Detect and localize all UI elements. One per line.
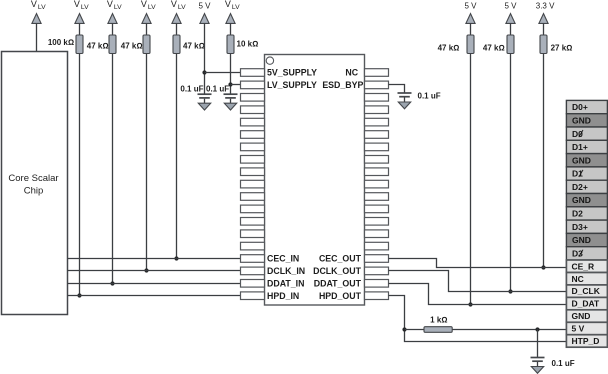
wire V_LV1 to chip	[36, 23, 38, 51]
svg-text:LV: LV	[148, 4, 156, 11]
resistor R4 47 k&#8486;	[173, 35, 180, 54]
wire R7 to D_CLK net	[510, 54, 512, 292]
power arrow V_LV 6	[226, 14, 235, 24]
svg-text:D_DAT: D_DAT	[572, 299, 601, 309]
svg-text:Core Scalar: Core Scalar	[8, 173, 58, 184]
power V_LV rail 2 with resistor R1	[74, 0, 89, 11]
junction HPD_IN net	[77, 293, 81, 297]
wire CEC_OUT to CE_R	[389, 259, 567, 268]
svg-text:V: V	[74, 0, 80, 9]
resistor R2 47 k&#8486;	[109, 35, 116, 54]
resistor R9 1 kOhm (horizontal)	[424, 327, 452, 333]
svg-text:D0: D0	[572, 129, 583, 139]
svg-text:5 V: 5 V	[464, 1, 477, 10]
power arrow V_LV 3	[108, 14, 117, 24]
junction D_CLK net	[508, 289, 512, 293]
power V_LV rail 3 with resistor R2	[107, 0, 122, 11]
svg-text:ESD_BYP: ESD_BYP	[322, 80, 363, 90]
svg-text:GND: GND	[572, 195, 591, 205]
power V_LV rail 4 with resistor R3	[141, 0, 156, 11]
svg-text:DCLK_IN: DCLK_IN	[267, 266, 305, 276]
ground	[398, 102, 410, 109]
capacitor C4 0.1 uF	[531, 358, 545, 367]
svg-text:LV_SUPPLY: LV_SUPPLY	[267, 80, 317, 90]
wire	[146, 23, 148, 35]
power V_LV rail 1 (to Core Scalar Chip)	[31, 0, 46, 11]
junction CE_R net	[541, 265, 545, 269]
svg-text:47 kΩ: 47 kΩ	[183, 41, 205, 50]
resistor R7 47 k&#8486;	[507, 35, 514, 54]
svg-text:Chip: Chip	[24, 186, 44, 197]
junction D_DAT net	[468, 302, 472, 306]
U1 left pin row	[241, 69, 265, 300]
wire	[176, 23, 178, 35]
power arrow 5 V A	[466, 14, 475, 24]
wire	[230, 23, 232, 35]
junction DDAT_IN net	[110, 281, 114, 285]
svg-text:GND: GND	[572, 115, 591, 125]
svg-text:DDAT_OUT: DDAT_OUT	[314, 279, 362, 289]
wire 5V rail	[204, 23, 206, 94]
power arrow 5 V B	[506, 14, 515, 24]
svg-text:5 V: 5 V	[504, 1, 517, 10]
svg-text:47 kΩ: 47 kΩ	[438, 44, 460, 53]
Core Scalar Chip block	[2, 52, 68, 315]
power arrow 5 V	[200, 14, 209, 24]
svg-text:HPD_IN: HPD_IN	[267, 291, 299, 301]
ground	[224, 103, 236, 110]
wire	[79, 23, 81, 35]
svg-text:D_CLK: D_CLK	[572, 286, 601, 296]
svg-text:10 kΩ: 10 kΩ	[237, 40, 259, 49]
svg-text:V: V	[171, 0, 177, 9]
wire CEC_IN net	[68, 258, 241, 260]
svg-text:0.1 uF: 0.1 uF	[418, 92, 441, 101]
wire to C4	[537, 330, 539, 358]
IC U1 body (HDMI companion chip)	[265, 55, 365, 306]
wire	[510, 23, 512, 35]
power arrow V_LV 1	[32, 14, 41, 24]
svg-text:0.1 uF: 0.1 uF	[552, 359, 575, 368]
connector J1 (HDMI receptacle pin field)	[566, 100, 607, 347]
svg-text:V: V	[31, 0, 37, 9]
svg-text:D3+: D3+	[572, 222, 588, 232]
svg-text:NC: NC	[345, 68, 358, 78]
wire R1 to HPD_IN net	[79, 54, 81, 296]
svg-text:V: V	[107, 0, 113, 9]
svg-text:27 kΩ: 27 kΩ	[551, 44, 573, 53]
svg-text:0.1 uF: 0.1 uF	[180, 85, 203, 94]
junction 5 V net	[535, 327, 539, 331]
svg-text:HPD_OUT: HPD_OUT	[319, 291, 362, 301]
svg-text:LV: LV	[114, 4, 122, 11]
svg-text:1 kΩ: 1 kΩ	[430, 315, 447, 324]
svg-text:D0+: D0+	[572, 102, 588, 112]
svg-text:D1: D1	[572, 169, 583, 179]
svg-text:V: V	[141, 0, 147, 9]
power V_LV rail 5 with resistor R4	[171, 0, 186, 11]
wire DDAT_OUT to D_DAT	[389, 284, 567, 305]
svg-text:100 kΩ: 100 kΩ	[48, 38, 74, 47]
svg-text:LV: LV	[178, 4, 186, 11]
wire HPD node to 5 V row	[405, 329, 425, 331]
svg-text:47 kΩ: 47 kΩ	[121, 41, 143, 50]
capacitor C1 0.1 uF	[198, 94, 212, 103]
resistor R3 47 k&#8486;	[143, 35, 150, 54]
U1 right pin row	[365, 69, 389, 300]
wire R8 to CE_R net	[543, 54, 545, 268]
svg-text:LV: LV	[38, 4, 46, 11]
svg-text:GND: GND	[572, 155, 591, 165]
svg-text:LV: LV	[232, 4, 240, 11]
svg-text:DCLK_OUT: DCLK_OUT	[313, 266, 362, 276]
junction LV_SUPPLY node	[228, 82, 232, 86]
svg-text:CE_R: CE_R	[572, 261, 595, 271]
wire R4 to CEC_IN net	[176, 54, 178, 259]
capacitor C3 0.1 uF	[398, 93, 412, 102]
svg-text:LV: LV	[81, 4, 89, 11]
svg-text:V: V	[225, 0, 231, 9]
svg-text:GND: GND	[572, 235, 591, 245]
svg-text:D2: D2	[572, 209, 583, 219]
junction CEC_IN net	[174, 256, 178, 260]
junction HPD node	[402, 327, 406, 331]
svg-text:3.3 V: 3.3 V	[536, 1, 555, 10]
svg-text:D1+: D1+	[572, 142, 588, 152]
junction 5V_SUPPLY node	[202, 70, 206, 74]
resistor R5 10 k&#8486;	[227, 35, 234, 54]
power arrow V_LV 4	[142, 14, 151, 24]
power arrow V_LV 2	[75, 14, 84, 24]
wire	[112, 23, 114, 35]
wire ESD_BYP to C3	[389, 85, 405, 94]
svg-text:HTP_D: HTP_D	[572, 336, 600, 346]
svg-text:0.1 uF: 0.1 uF	[206, 85, 229, 94]
svg-text:47 kΩ: 47 kΩ	[87, 41, 109, 50]
svg-text:CEC_OUT: CEC_OUT	[319, 254, 362, 264]
wire LV rail	[230, 54, 232, 95]
svg-text:5 V: 5 V	[198, 1, 211, 10]
wire HPD_IN net	[68, 295, 241, 297]
svg-text:GND: GND	[572, 311, 591, 321]
wire R3 to DCLK_IN net	[146, 54, 148, 271]
svg-text:D3: D3	[572, 249, 583, 259]
wire	[470, 23, 472, 35]
wire DDAT_IN net	[68, 283, 241, 285]
svg-text:47 kΩ: 47 kΩ	[483, 44, 505, 53]
ground	[198, 103, 210, 110]
svg-text:DDAT_IN: DDAT_IN	[267, 279, 304, 289]
power arrow 3.3 V	[539, 14, 548, 24]
svg-text:D2+: D2+	[572, 182, 588, 192]
wire to 5V_SUPPLY pin	[205, 72, 241, 74]
capacitor C2 0.1 uF	[224, 94, 238, 103]
junction DCLK_IN net	[144, 268, 148, 272]
svg-text:CEC_IN: CEC_IN	[267, 254, 299, 264]
wire DCLK_OUT to D_CLK	[389, 271, 567, 292]
resistor R1 100 k&#8486;	[76, 35, 83, 54]
svg-text:5V_SUPPLY: 5V_SUPPLY	[267, 68, 317, 78]
resistor R8 27 k&#8486;	[540, 35, 547, 54]
wire R6 to D_DAT net	[470, 54, 472, 305]
power arrow V_LV 5	[172, 14, 181, 24]
wire	[543, 23, 545, 35]
power V_LV rail 6 with resistor R5 (LV_SUPPLY)	[225, 0, 240, 11]
svg-text:5 V: 5 V	[572, 324, 585, 334]
wire R2 to DDAT_IN net	[112, 54, 114, 284]
ground	[531, 367, 543, 374]
resistor R6 47 k&#8486;	[467, 35, 474, 54]
wire DCLK_IN net	[68, 270, 241, 272]
wire HPD_OUT to HTP_D	[389, 296, 567, 342]
pin 1 indicator circle	[266, 57, 273, 64]
svg-text:NC: NC	[572, 274, 584, 284]
wire to LV_SUPPLY pin	[231, 84, 241, 86]
